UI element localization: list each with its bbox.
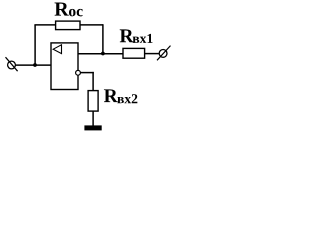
- resistor Roc: [56, 21, 80, 30]
- input terminal (circle with slash): [6, 57, 18, 71]
- ground: [84, 125, 101, 130]
- label Rvx1: [120, 29, 153, 42]
- wire feedback top right: [80, 24, 103, 26]
- wire bubble to Rvx2 horizontal: [80, 72, 94, 74]
- op-amp triangle symbol: [53, 45, 61, 54]
- op-amp U1 (GOST rectangle): [51, 43, 78, 90]
- output terminal (circle with slash): [157, 46, 171, 61]
- node B (junction dot output/feedback): [101, 52, 105, 56]
- wire feedback right vertical: [102, 24, 104, 54]
- resistor Rvx1: [123, 48, 145, 58]
- wire Rvx2 to ground: [92, 111, 94, 126]
- wire Rvx1 to output terminal: [145, 53, 160, 55]
- wire op-amp output to Rvx1: [78, 53, 123, 55]
- wire input terminal to op-amp: [15, 64, 51, 66]
- label Roc: [55, 3, 83, 17]
- wire Rvx2 vertical top: [92, 72, 94, 91]
- label Rvx2: [104, 89, 137, 103]
- resistor Rvx2: [88, 91, 98, 112]
- op-amp inverting pin bubble: [76, 70, 81, 75]
- wire feedback left vertical: [34, 25, 36, 65]
- wire feedback top left: [34, 24, 55, 26]
- node A (junction dot input/feedback): [33, 63, 37, 67]
